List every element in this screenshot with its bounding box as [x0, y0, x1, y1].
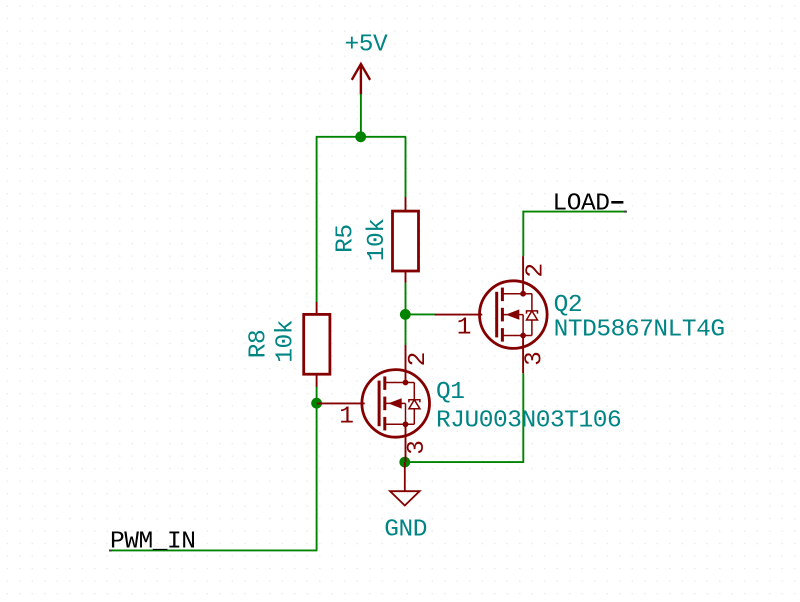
svg-text:NTD5867NLT4G: NTD5867NLT4G	[554, 317, 725, 344]
wire R8 bottom to node B	[316, 386, 318, 403]
Q1 bulk to source	[405, 403, 407, 424]
junction top rail	[355, 131, 366, 142]
wire up to Q2 source	[522, 373, 524, 463]
junction node A	[400, 309, 411, 320]
svg-text:GND: GND	[384, 517, 427, 544]
resistor R5	[393, 197, 419, 283]
Q1 gate bar	[378, 381, 381, 427]
Q1 drain pin (pin 2)	[405, 345, 407, 383]
wire +5V to top rail	[360, 94, 362, 137]
wire node C to Q2 source leg	[405, 461, 524, 463]
svg-text:2: 2	[523, 263, 550, 277]
wire rail down to R5	[405, 137, 407, 197]
junction node B	[311, 398, 322, 409]
resistor R8	[304, 302, 330, 387]
Q2 body circle	[480, 281, 548, 349]
wire R5 bottom to node A	[405, 282, 407, 345]
svg-text:Q1: Q1	[436, 379, 465, 406]
svg-text:10k: 10k	[364, 218, 391, 261]
power symbol +5V	[352, 64, 370, 95]
wire PWM_IN horizontal	[109, 549, 317, 551]
Q2 bulk to source	[522, 315, 524, 336]
Q2 source dot	[520, 333, 526, 339]
svg-text:2: 2	[405, 352, 432, 366]
wire top rail horizontal	[316, 136, 406, 138]
svg-text:R5: R5	[332, 224, 359, 253]
svg-text:1: 1	[457, 315, 471, 342]
Q1 drain link	[385, 382, 415, 384]
Q2 source pin (pin 3)	[522, 336, 524, 374]
Q2 channel strokes	[501, 288, 504, 342]
svg-text:R8: R8	[245, 330, 272, 359]
svg-text:1: 1	[339, 403, 353, 430]
wire LOAD- horizontal	[523, 211, 627, 213]
svg-text:RJU003N03T106: RJU003N03T106	[436, 407, 621, 434]
Q2 drain link	[502, 293, 531, 295]
Q1 gate pin (pin 1)	[317, 402, 365, 404]
Q1 drain dot	[403, 380, 409, 386]
Q2 gate pin (pin 1)	[435, 314, 483, 316]
Q1 source link	[385, 423, 415, 425]
svg-text:10k: 10k	[272, 320, 299, 363]
wire end tip LOAD-	[624, 211, 627, 213]
Q2 drain pin (pin 2)	[522, 256, 524, 294]
svg-text:+5V: +5V	[345, 32, 389, 59]
Q2 gate bar	[495, 292, 498, 338]
Q1 source pin (pin 3)	[405, 424, 407, 462]
svg-text:Q2: Q2	[554, 292, 583, 319]
Q1 source dot	[403, 421, 409, 427]
transistor Q1	[317, 345, 622, 462]
Q1 channel strokes	[383, 376, 386, 430]
Q1 body circle	[362, 370, 430, 438]
junction node C (Q1 source)	[399, 457, 410, 468]
Q2 body diode	[527, 294, 538, 336]
transistor Q2	[435, 256, 725, 373]
Q1 body diode	[409, 383, 420, 425]
wire Q2 drain up to LOAD corner	[522, 211, 524, 256]
wire end tip PWM_IN	[109, 550, 112, 552]
Q1 bulk arrow	[385, 402, 406, 404]
wire rail down to R8	[316, 137, 318, 302]
svg-text:3: 3	[522, 352, 549, 366]
svg-text:LOAD: LOAD	[553, 191, 610, 218]
Q2 source link	[502, 335, 531, 337]
wire node A to Q2 gate	[405, 313, 435, 315]
Q2 bulk arrow	[502, 314, 523, 316]
svg-text:PWM_IN: PWM_IN	[110, 528, 196, 555]
Q2 drain dot	[520, 291, 526, 297]
wire node B down to PWM corner	[316, 403, 318, 550]
svg-text:3: 3	[404, 440, 431, 454]
ground symbol	[390, 462, 420, 505]
